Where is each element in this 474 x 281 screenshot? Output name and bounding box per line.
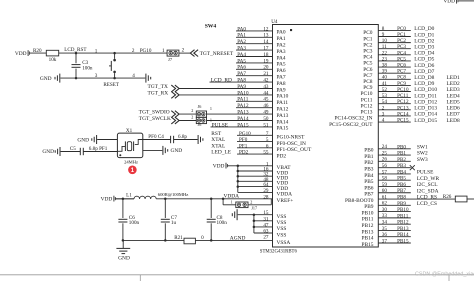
- inductor L1 600R@100MHz ferrite: [126, 192, 188, 199]
- svg-text:PA11: PA11: [237, 97, 248, 103]
- svg-text:J6: J6: [198, 122, 202, 127]
- svg-text:5: 5: [266, 137, 269, 143]
- ground symbol left of X1 top: [77, 135, 117, 144]
- svg-text:C5: C5: [70, 146, 76, 152]
- U4 pin 42 PA8 wire and net label: [210, 77, 286, 86]
- svg-text:PB13: PB13: [397, 226, 409, 232]
- svg-text:PC8: PC8: [397, 75, 406, 81]
- svg-text:PA7: PA7: [277, 75, 286, 81]
- svg-text:PA4: PA4: [237, 52, 246, 58]
- svg-text:14: 14: [263, 39, 269, 45]
- ground symbol below C6: [116, 240, 130, 261]
- svg-text:LED6: LED6: [447, 106, 460, 112]
- svg-text:PB4: PB4: [397, 169, 406, 175]
- U4 pin 20 PA6 wire and net label: [236, 65, 286, 74]
- U4 pin 50 PA14 wire and net label: [207, 116, 289, 125]
- svg-text:PA0: PA0: [237, 26, 246, 32]
- svg-text:PC2: PC2: [363, 42, 373, 48]
- svg-text:PA5: PA5: [277, 62, 286, 68]
- VDD bus vertical with junctions: [237, 165, 240, 193]
- U4 pin 3 PC14-OSC32_IN wire, net label PC14, net LCD_D14: [334, 111, 460, 121]
- net label LCD_RD on PA8 wire: [211, 78, 232, 84]
- capacitor C8 100n: [207, 199, 228, 241]
- svg-text:17: 17: [263, 45, 269, 51]
- svg-text:1u: 1u: [171, 220, 177, 226]
- svg-text:PA3: PA3: [237, 45, 246, 51]
- U4 pin 31 VSS wire: [254, 216, 286, 226]
- svg-text:LED8: LED8: [447, 118, 460, 124]
- svg-text:45: 45: [263, 97, 269, 103]
- ground symbol at VSS pins: [232, 209, 272, 220]
- svg-text:PC11: PC11: [397, 93, 409, 99]
- svg-text:PB2: PB2: [364, 160, 374, 166]
- U4 pin 26 PB2 wire, net label PB2: [364, 157, 428, 166]
- U4 pin 14 PA2 wire and net label: [236, 39, 286, 48]
- svg-text:100n: 100n: [129, 220, 140, 226]
- svg-text:LCD_D15: LCD_D15: [414, 118, 437, 124]
- svg-text:GND: GND: [77, 137, 89, 143]
- svg-text:CSDN @Embedded_xiaobai: CSDN @Embedded_xiaobai: [415, 271, 474, 277]
- U4 pin 43 PA9 wire and net label: [179, 84, 286, 93]
- svg-text:PB5: PB5: [397, 176, 406, 182]
- svg-text:PC4: PC4: [363, 55, 373, 61]
- svg-text:10k: 10k: [49, 57, 57, 63]
- resistor R26 on LCD_RS line: [443, 194, 474, 202]
- svg-text:59: 59: [382, 182, 388, 188]
- svg-text:SW2: SW2: [417, 151, 428, 157]
- svg-text:PULSE: PULSE: [212, 122, 229, 128]
- U4 pin 16 VDD wire: [238, 166, 288, 176]
- svg-text:VDD: VDD: [443, 0, 455, 5]
- U4 pin 38 PC6 wire, net label PC6, net LCD_D6: [363, 63, 434, 73]
- svg-text:PB9: PB9: [397, 201, 406, 207]
- svg-text:PB0: PB0: [364, 148, 374, 154]
- svg-text:PC3: PC3: [363, 48, 373, 54]
- svg-text:PB8: PB8: [397, 194, 406, 200]
- net label VDDA and junction to J17: [222, 194, 239, 200]
- svg-text:600R@100MHz: 600R@100MHz: [158, 192, 189, 197]
- svg-text:PA1: PA1: [277, 36, 286, 42]
- svg-text:PC4: PC4: [397, 50, 406, 56]
- svg-text:PC15-OSC32_OUT: PC15-OSC32_OUT: [329, 122, 373, 128]
- svg-text:RST: RST: [211, 131, 222, 137]
- pin number 4 of reset switch: [132, 73, 135, 79]
- svg-text:VSS: VSS: [277, 220, 287, 226]
- svg-text:PD2: PD2: [239, 150, 249, 156]
- svg-text:PC8: PC8: [363, 79, 373, 85]
- svg-text:PB6: PB6: [397, 182, 406, 188]
- svg-text:LCD_D0: LCD_D0: [414, 26, 434, 32]
- resistor R20 10k: [33, 48, 59, 63]
- svg-text:7: 7: [266, 131, 269, 137]
- svg-text:PA13: PA13: [237, 109, 249, 115]
- U4 pin 32 VDD wire: [238, 172, 288, 182]
- pin number 2 of reset switch: [132, 48, 135, 54]
- svg-text:LCD_D2: LCD_D2: [414, 38, 434, 44]
- U4 pin 19 PA5 wire and net label: [236, 58, 286, 67]
- svg-text:LCD_D1: LCD_D1: [414, 32, 434, 38]
- U4 pin 55 PD2 wire, net label PD2, label LED_LE: [211, 150, 286, 160]
- svg-text:LED1: LED1: [447, 75, 460, 81]
- svg-text:VSS: VSS: [277, 214, 287, 220]
- pushbutton RESET: [103, 53, 120, 88]
- svg-text:PA7: PA7: [237, 71, 246, 77]
- svg-text:PC5: PC5: [363, 61, 373, 67]
- svg-text:15: 15: [263, 210, 269, 216]
- svg-text:PB9: PB9: [364, 204, 374, 210]
- svg-text:I2C_SCL: I2C_SCL: [417, 182, 438, 188]
- svg-text:PC2: PC2: [397, 38, 406, 44]
- svg-text:PC1: PC1: [397, 32, 406, 38]
- svg-text:60: 60: [382, 188, 388, 194]
- U4 pin 34 PB12 wire, net label PB12: [362, 220, 411, 229]
- svg-text:PB11: PB11: [362, 217, 374, 223]
- svg-text:PA11: PA11: [277, 100, 289, 106]
- svg-text:3: 3: [95, 73, 98, 79]
- svg-text:58: 58: [382, 176, 388, 182]
- svg-text:VDD: VDD: [15, 51, 27, 57]
- U4 pin 40 PC8 wire, net label PC8, net LCD_D8: [363, 75, 460, 85]
- svg-text:SW4: SW4: [205, 24, 217, 30]
- svg-text:LED7: LED7: [447, 112, 460, 118]
- svg-text:PA6: PA6: [237, 65, 246, 71]
- U4 pin 52 PC10 wire, net label PC10, net LCD_D10: [361, 87, 460, 97]
- svg-text:VDD: VDD: [213, 163, 225, 169]
- svg-text:PB14: PB14: [397, 232, 409, 238]
- resistor R21 0 ohm: [174, 235, 204, 244]
- svg-text:VSS: VSS: [277, 232, 287, 238]
- U4 pin 57 PB4 wire, net label PB4: [364, 169, 434, 178]
- svg-text:1: 1: [95, 48, 98, 54]
- svg-text:PF0 C4: PF0 C4: [148, 134, 164, 140]
- svg-text:LED3: LED3: [447, 87, 460, 93]
- svg-text:TGT_SWDIO: TGT_SWDIO: [139, 110, 170, 116]
- svg-text:36: 36: [382, 232, 388, 238]
- svg-text:L1: L1: [126, 192, 132, 198]
- svg-text:PA15: PA15: [277, 126, 289, 132]
- svg-text:PC9: PC9: [397, 81, 406, 87]
- svg-text:TGT_TX: TGT_TX: [148, 84, 168, 90]
- svg-text:10: 10: [382, 38, 388, 44]
- U4 pin 47 VSS wire: [254, 222, 286, 232]
- svg-text:PA10: PA10: [277, 94, 289, 100]
- svg-text:PF0: PF0: [239, 137, 248, 143]
- U4 pin 60 PB7 wire, net label PB7: [364, 188, 438, 197]
- U4 pin 59 PB6 wire, net label PB6: [364, 182, 437, 191]
- U4 pin 62 PB9 wire, net label PB9: [364, 201, 437, 210]
- U4 pin 41 PC9 wire, net label PC9, net LCD_D9: [363, 81, 460, 91]
- U4 pin 9 PC1 wire, net label PC1, net LCD_D1: [363, 32, 434, 42]
- power port VDD (reset pull-up): [15, 50, 46, 57]
- svg-text:PC1: PC1: [363, 36, 373, 42]
- svg-text:PB10: PB10: [397, 207, 409, 213]
- U4 pin 63 VSS wire: [254, 228, 286, 238]
- svg-text:100n: 100n: [82, 65, 93, 71]
- port TGT_SWCLK to J6: [139, 116, 179, 124]
- port TGT_TX to PA9: [148, 84, 180, 92]
- svg-text:R21: R21: [174, 235, 183, 241]
- U4 pin 12 PA0 wire and net label: [236, 26, 292, 35]
- svg-text:20: 20: [263, 65, 269, 71]
- U4 pin 51 PA15 wire and net label: [211, 122, 289, 131]
- svg-text:LCD_D11: LCD_D11: [414, 93, 437, 99]
- svg-text:SW1: SW1: [417, 144, 428, 150]
- svg-text:LCD_D10: LCD_D10: [414, 87, 437, 93]
- svg-text:LCD_D4: LCD_D4: [414, 51, 434, 57]
- U4 pin 15 VSS wire: [263, 210, 286, 220]
- svg-text:53: 53: [382, 93, 388, 99]
- U4 pin 61 PB8-BOOT0 wire, net label PB8: [345, 194, 455, 203]
- svg-text:PA3: PA3: [277, 49, 286, 55]
- svg-text:PA14: PA14: [237, 116, 249, 122]
- svg-text:J6: J6: [198, 104, 202, 109]
- svg-text:TGT_RX: TGT_RX: [148, 91, 169, 97]
- svg-text:22: 22: [382, 50, 388, 56]
- svg-text:63: 63: [263, 228, 269, 234]
- U4 pin 18 PA4 wire and net label: [236, 52, 286, 61]
- svg-text:VSSA: VSSA: [277, 240, 291, 246]
- svg-text:PB7: PB7: [364, 192, 374, 198]
- ground symbol right of reset switch: [146, 74, 151, 83]
- svg-text:PB7: PB7: [397, 188, 406, 194]
- svg-text:LCD_D7: LCD_D7: [414, 69, 434, 75]
- U4 pin 22 PC4 wire, net label PC4, net LCD_D4: [363, 50, 434, 60]
- svg-text:13: 13: [263, 33, 269, 39]
- svg-text:61: 61: [382, 194, 388, 200]
- svg-text:57: 57: [382, 169, 388, 175]
- net label PULSE on PA15 wire: [212, 122, 229, 128]
- svg-text:PB15: PB15: [397, 238, 409, 244]
- svg-text:2: 2: [191, 108, 193, 113]
- U4 pin 48 VDD wire: [238, 177, 288, 187]
- svg-text:2: 2: [382, 105, 385, 111]
- U4 pin 49 PA13 wire and net label: [207, 109, 289, 118]
- U4 pin 13 PA1 wire and net label: [236, 33, 286, 42]
- svg-text:1: 1: [231, 199, 233, 204]
- svg-text:PB4: PB4: [364, 173, 374, 179]
- pin number 3 of reset switch: [95, 73, 98, 79]
- svg-text:23: 23: [382, 56, 388, 62]
- svg-text:PB12: PB12: [362, 223, 374, 229]
- svg-text:PULSE: PULSE: [417, 170, 434, 176]
- svg-text:R20: R20: [33, 48, 42, 54]
- U4 pin 8 PC0 wire, net label PC0, net LCD_D0: [363, 26, 434, 36]
- svg-text:8: 8: [382, 26, 385, 32]
- U4 pin 28 VREF+ wire (filtered rail): [263, 194, 293, 204]
- label SW4: [205, 24, 217, 30]
- svg-text:PB5: PB5: [364, 179, 374, 185]
- svg-text:37: 37: [382, 238, 388, 244]
- svg-text:J17: J17: [251, 205, 257, 210]
- svg-text:PB6: PB6: [364, 185, 374, 191]
- pin number 1 of reset switch: [95, 48, 98, 54]
- U4 pin 27 VSSA wire from AGND rail: [263, 235, 290, 247]
- svg-text:31: 31: [263, 216, 269, 222]
- svg-text:PA4: PA4: [277, 55, 286, 61]
- svg-text:29: 29: [263, 188, 269, 194]
- svg-text:PC13: PC13: [397, 105, 409, 111]
- power port VDD (top right): [443, 0, 474, 5]
- svg-text:9: 9: [382, 32, 385, 38]
- svg-text:PB12: PB12: [397, 220, 409, 226]
- svg-text:PC5: PC5: [397, 56, 406, 62]
- svg-text:PG10-NRST: PG10-NRST: [277, 135, 306, 141]
- svg-text:PC15: PC15: [397, 118, 409, 124]
- svg-text:19: 19: [263, 58, 269, 64]
- svg-text:PC0: PC0: [363, 30, 373, 36]
- svg-text:56: 56: [382, 163, 388, 169]
- svg-text:VREF+: VREF+: [277, 198, 294, 204]
- svg-text:28: 28: [263, 194, 269, 200]
- svg-text:PC3: PC3: [397, 44, 406, 50]
- U4 pin 54 PC12 wire, net label PC12, net LCD_D12: [361, 99, 460, 109]
- svg-text:PB10: PB10: [362, 210, 374, 216]
- ground port GND (reset): [40, 74, 145, 83]
- svg-text:PB8-BOOT0: PB8-BOOT0: [345, 198, 374, 204]
- U4 pin 29 VDDA wire: [238, 188, 292, 198]
- svg-text:1: 1: [162, 48, 165, 54]
- U4 pin 23 PC5 wire, net label PC5, net LCD_D5: [363, 56, 434, 66]
- svg-text:54: 54: [382, 99, 388, 105]
- svg-text:PA9: PA9: [277, 87, 286, 93]
- MCU U4 STM32G431RBT6 body: [260, 19, 379, 255]
- ground, capacitor C5 6.8p to PF1: [42, 146, 117, 156]
- svg-text:100n: 100n: [217, 220, 228, 226]
- svg-text:PG10: PG10: [140, 48, 152, 54]
- power port VDD (analog filter input): [101, 196, 134, 203]
- wire VDD port to C6 junction: [116, 198, 135, 200]
- svg-text:PC13: PC13: [361, 110, 373, 116]
- svg-text:55: 55: [263, 150, 269, 156]
- wire net LCD_RST with junction to C3: [59, 47, 168, 54]
- svg-text:52: 52: [382, 87, 388, 93]
- svg-text:PC14-OSC32_IN: PC14-OSC32_IN: [334, 116, 372, 122]
- wire X1 to PF0, capacitor C4 6.8p: [143, 134, 198, 143]
- U4 pin 56 PB3 wire, net label PB3: [364, 163, 415, 172]
- svg-text:39: 39: [382, 69, 388, 75]
- svg-text:STM32G431RBT6: STM32G431RBT6: [260, 250, 298, 255]
- power port VDD (MCU supply): [213, 163, 238, 170]
- svg-text:PA8: PA8: [237, 77, 246, 83]
- svg-text:PA2: PA2: [277, 43, 286, 49]
- svg-text:51: 51: [263, 122, 269, 128]
- svg-text:PC10: PC10: [361, 91, 373, 97]
- svg-text:LCD_WR: LCD_WR: [417, 176, 440, 182]
- svg-text:R26: R26: [443, 194, 452, 200]
- svg-text:PA10: PA10: [237, 90, 249, 96]
- svg-text:46: 46: [263, 103, 269, 109]
- svg-text:TGT_NRESET: TGT_NRESET: [200, 51, 234, 57]
- svg-text:11: 11: [382, 44, 387, 50]
- svg-text:PF1-OSC_OUT: PF1-OSC_OUT: [277, 147, 312, 153]
- svg-text:49: 49: [263, 109, 269, 115]
- U4 pin 53 PC11 wire, net label PC11, net LCD_D11: [361, 93, 460, 103]
- U4 pin 10 PC2 wire, net label PC2, net LCD_D2: [363, 38, 434, 48]
- U4 pin 17 PA3 wire and net label: [236, 45, 286, 54]
- svg-text:PA2: PA2: [237, 39, 246, 45]
- svg-text:VDDA: VDDA: [277, 192, 293, 198]
- U4 pin 4 PC15-OSC32_OUT wire, net label PC15, net LCD_D15: [329, 118, 460, 128]
- svg-text:PC9: PC9: [363, 85, 373, 91]
- sheet border line: [0, 275, 474, 281]
- U4 pin 6 PF1-OSC_OUT wire, net label PF1, label XTAL: [211, 143, 312, 153]
- annotation red circle 1: [128, 166, 137, 175]
- svg-text:4: 4: [382, 118, 385, 124]
- svg-text:44: 44: [263, 90, 269, 96]
- svg-text:PC11: PC11: [361, 97, 373, 103]
- ground symbol bottom-right of X1: [143, 146, 182, 155]
- svg-text:2: 2: [250, 199, 252, 204]
- svg-text:LCD_D9: LCD_D9: [414, 81, 434, 87]
- svg-text:LED4: LED4: [447, 93, 460, 99]
- svg-text:40: 40: [382, 75, 388, 81]
- svg-text:PA14: PA14: [277, 119, 289, 125]
- U4 pin 11 PC3 wire, net label PC3, net LCD_D3: [363, 44, 434, 54]
- svg-text:PB15: PB15: [362, 242, 374, 248]
- svg-text:PF0-OSC_IN: PF0-OSC_IN: [277, 141, 306, 147]
- svg-text:PG10: PG10: [239, 131, 251, 137]
- svg-text:PC6: PC6: [397, 63, 406, 69]
- svg-text:VSS: VSS: [277, 226, 287, 232]
- U4 pin 35 PB13 wire, net label PB13: [362, 226, 411, 235]
- svg-text:PA8: PA8: [277, 81, 286, 87]
- svg-text:GND: GND: [42, 149, 54, 155]
- U4 pin 5 PF0-OSC_IN wire, net label PF0, label XTAL: [211, 137, 306, 147]
- svg-text:26: 26: [382, 157, 388, 163]
- U4 pin 44 PA10 wire and net label: [179, 90, 288, 99]
- svg-text:PB2: PB2: [397, 157, 406, 163]
- svg-text:0: 0: [201, 235, 204, 241]
- capacitor C6 100n: [118, 199, 139, 241]
- svg-text:6: 6: [266, 143, 269, 149]
- svg-text:PD2: PD2: [277, 153, 287, 159]
- svg-text:PB3: PB3: [397, 163, 406, 169]
- U4 pin 39 PC7 wire, net label PC7, net LCD_D7: [363, 69, 434, 79]
- svg-text:PB13: PB13: [362, 229, 374, 235]
- svg-text:PA12: PA12: [277, 107, 289, 113]
- U4 pin 58 PB5 wire, net label PB5: [364, 176, 439, 185]
- svg-text:2: 2: [132, 48, 135, 54]
- svg-text:PC6: PC6: [363, 67, 373, 73]
- svg-text:27: 27: [263, 235, 269, 241]
- svg-text:I2C_SDA: I2C_SDA: [417, 188, 439, 194]
- svg-text:PA12: PA12: [237, 103, 249, 109]
- svg-text:XTAL: XTAL: [211, 143, 225, 149]
- port TGT_NRESET: [190, 50, 234, 57]
- svg-text:24MHz: 24MHz: [124, 160, 138, 165]
- svg-text:PA5: PA5: [237, 58, 246, 64]
- svg-text:XTAL: XTAL: [211, 137, 225, 143]
- ground rail AGND with junctions: [122, 239, 273, 242]
- jumper J17: [223, 199, 271, 211]
- svg-text:PC12: PC12: [361, 103, 373, 109]
- svg-text:42: 42: [263, 77, 269, 83]
- svg-text:PA13: PA13: [277, 113, 289, 119]
- svg-text:41: 41: [382, 81, 388, 87]
- U4 pin 45 PA11 wire and net label: [236, 97, 288, 106]
- svg-text:18: 18: [263, 52, 269, 58]
- svg-text:LCD_D6: LCD_D6: [414, 63, 434, 69]
- U4 pin 33 PB11 wire, net label PB11: [362, 213, 411, 222]
- svg-text:GND: GND: [118, 256, 130, 262]
- svg-text:PC7: PC7: [397, 69, 406, 75]
- capacitor C7 1u: [161, 199, 178, 241]
- wires TGT_SWDIO/SWCLK to connector J6: [179, 114, 196, 120]
- net label AGND: [230, 235, 246, 241]
- svg-text:LCD_RS: LCD_RS: [417, 195, 437, 201]
- svg-text:1: 1: [210, 106, 212, 111]
- net label PG10 on reset wire: [140, 48, 152, 54]
